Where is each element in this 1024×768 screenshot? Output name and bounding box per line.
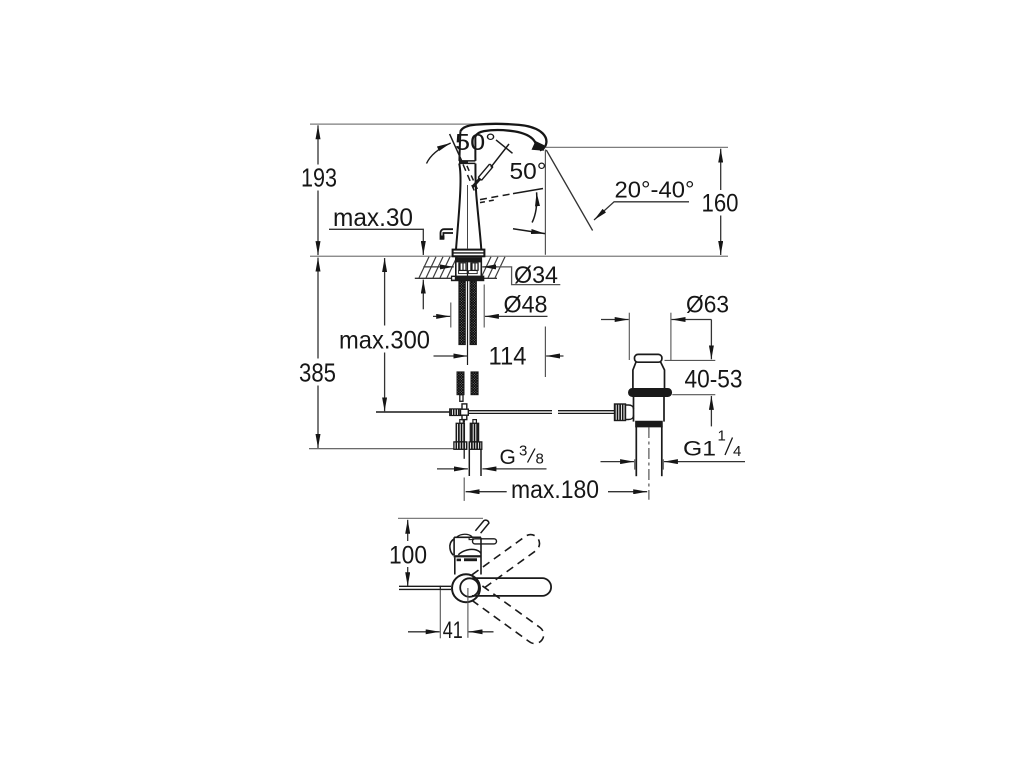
body centerline <box>467 185 469 249</box>
threaded shank top band <box>456 257 482 262</box>
dimension 193 (left, overall height) <box>317 125 319 255</box>
svg-text:20°-40°: 20°-40° <box>615 177 695 203</box>
svg-text:41: 41 <box>443 617 463 644</box>
pivot connector <box>626 405 634 420</box>
385 bottom reference line <box>309 448 454 450</box>
braided hoses upper <box>459 281 465 344</box>
plan: dashed lever position lower <box>472 586 547 647</box>
svg-text:max.180: max.180 <box>511 476 599 504</box>
pivot nut (knurled) <box>615 404 626 421</box>
dark joint band <box>454 555 481 557</box>
FAUCET BODY (side view) <box>440 124 546 256</box>
tilted lever axis line (closed position) <box>450 134 464 165</box>
base plate <box>453 250 485 257</box>
svg-text:50°: 50° <box>510 158 547 184</box>
spout outlet vertical reference x=545.4 <box>544 150 546 255</box>
plan lever (pointing right) <box>473 539 497 544</box>
svg-text:4: 4 <box>733 443 741 460</box>
dimension 100 <box>407 520 409 586</box>
lever tip line <box>491 144 509 167</box>
base below band <box>454 557 456 574</box>
top dome arc <box>457 534 472 537</box>
plan: body outer circle <box>452 574 480 602</box>
dimension Ø34 <box>423 267 560 285</box>
riser <box>459 131 460 161</box>
counter hatching left <box>419 257 457 278</box>
dashed lever outline continuation <box>463 165 474 191</box>
braided hoses lower section <box>457 372 464 395</box>
dimension 40-53 <box>665 320 716 427</box>
dimension 41 <box>408 588 494 638</box>
SIDE VIEW GROUP <box>299 124 739 449</box>
pop-up rod and tee <box>376 404 615 423</box>
50 deg annotations <box>427 134 546 234</box>
counter hatching right <box>481 257 505 278</box>
dimension Ø63 <box>601 313 711 360</box>
dimension 385 (left, depth below deck) <box>317 258 319 448</box>
svg-text:50°: 50° <box>455 129 496 155</box>
neck bar <box>459 160 476 162</box>
dimension 160 (right, spout height) <box>546 146 728 148</box>
svg-text:Ø63: Ø63 <box>686 292 729 319</box>
plan: lever bar (solid) <box>472 578 551 596</box>
20-40 leader w/ arrow <box>594 202 689 220</box>
svg-text:114: 114 <box>489 343 527 371</box>
svg-text:385: 385 <box>299 358 336 388</box>
svg-text:100: 100 <box>389 542 427 570</box>
water stream line 20-40 deg <box>546 150 592 231</box>
top reference line (overall height) <box>310 123 500 125</box>
deck / counter top line <box>310 255 728 257</box>
stud bolts section <box>458 262 466 270</box>
svg-text:max.300: max.300 <box>339 327 430 355</box>
svg-text:G1: G1 <box>683 438 716 461</box>
counter bottom line <box>415 277 497 279</box>
dimension Ø48 <box>433 285 548 328</box>
cap <box>635 354 662 362</box>
lever lower stem (thick) <box>473 178 480 187</box>
body below seal <box>633 396 635 421</box>
svg-text:160: 160 <box>702 190 739 218</box>
shank outer tube walls <box>455 257 457 276</box>
white collar bars <box>459 271 468 274</box>
lever grip outline <box>478 164 493 180</box>
markings on base <box>457 559 461 562</box>
centerline between hoses <box>467 262 469 365</box>
pop-up rod knob (left of body) <box>440 229 453 239</box>
100 top reference line <box>398 517 483 519</box>
svg-text:8: 8 <box>536 451 544 468</box>
svg-text:1: 1 <box>718 428 726 445</box>
PLAN VIEW GROUP <box>389 518 551 647</box>
plan: lever boss circle <box>460 578 479 597</box>
50deg leader through tip (forms X) <box>496 140 513 153</box>
plan: faucet head cluster (above circle) <box>450 520 497 574</box>
dashed axis to open position (right) <box>480 194 513 200</box>
svg-text:3: 3 <box>519 443 527 460</box>
dimension G1 1/4 <box>601 459 746 469</box>
spout outer curve <box>460 124 546 150</box>
tailpipe <box>635 427 637 477</box>
left bulge arc <box>450 539 454 555</box>
bottom seal <box>636 422 662 427</box>
dimension max.300 (distance deck to pop-up rod) <box>384 258 386 411</box>
LEVER (open position) <box>473 140 513 187</box>
spout tube diagonal up-right <box>475 520 489 533</box>
spout tip <box>532 141 545 151</box>
angle arc with up arrow <box>532 192 537 222</box>
dimension max.180 <box>464 478 647 501</box>
spout inner curve <box>475 130 536 148</box>
rotation leader arrow (left) <box>427 143 451 164</box>
dimension 114 <box>434 355 564 357</box>
svg-text:40-53: 40-53 <box>685 366 743 394</box>
inner dome lens <box>458 549 481 554</box>
UNDER-DECK: shank, hoses, washer <box>451 257 484 401</box>
svg-text:G: G <box>500 446 516 469</box>
seal ring (top) <box>629 389 671 396</box>
flare <box>633 362 636 389</box>
G3/8 connectors and nuts <box>454 420 482 476</box>
svg-text:Ø48: Ø48 <box>504 292 548 319</box>
svg-text:193: 193 <box>301 163 337 193</box>
body block <box>454 536 481 538</box>
left hose end stub <box>460 395 463 402</box>
svg-text:max.30: max.30 <box>333 204 413 232</box>
svg-text:Ø34: Ø34 <box>514 262 558 289</box>
center dash-dot line <box>648 427 650 500</box>
plan: dashed lever position upper <box>472 531 543 589</box>
horseshoe washer <box>451 276 484 282</box>
body left contour <box>456 164 460 250</box>
dimension G3/8 <box>437 468 547 470</box>
DRAIN (pop-up waste) <box>615 354 672 499</box>
body right contour <box>475 164 481 250</box>
lower arc segment w/ right arrow <box>513 229 545 234</box>
plan: pop-up rod pointing left <box>399 585 451 587</box>
